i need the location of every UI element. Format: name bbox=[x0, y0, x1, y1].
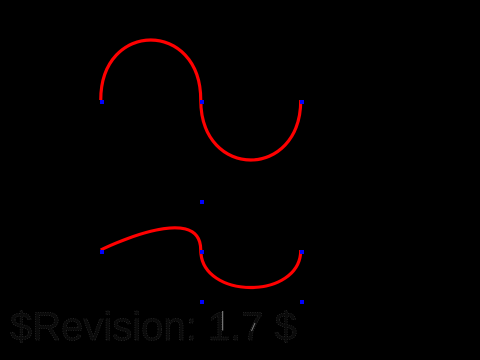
node bottom-mid bbox=[200, 250, 204, 254]
node top-left bbox=[100, 100, 104, 104]
bright stem of digit 1 bbox=[222, 311, 224, 331]
node top-right bbox=[300, 100, 304, 104]
control point below right bbox=[300, 300, 304, 304]
control point below mid bbox=[200, 300, 204, 304]
node bottom-right bbox=[300, 250, 304, 254]
bright top corner of digit 7 bbox=[252, 323, 256, 331]
bottom bezier curve s/s bbox=[101, 228, 301, 288]
svg-text:$Revision: 1.7 $: $Revision: 1.7 $ bbox=[10, 305, 297, 349]
node bottom-left bbox=[100, 250, 104, 254]
control point above mid bbox=[200, 200, 204, 204]
top bezier curve C/S bbox=[101, 40, 301, 160]
node top-mid bbox=[200, 100, 204, 104]
